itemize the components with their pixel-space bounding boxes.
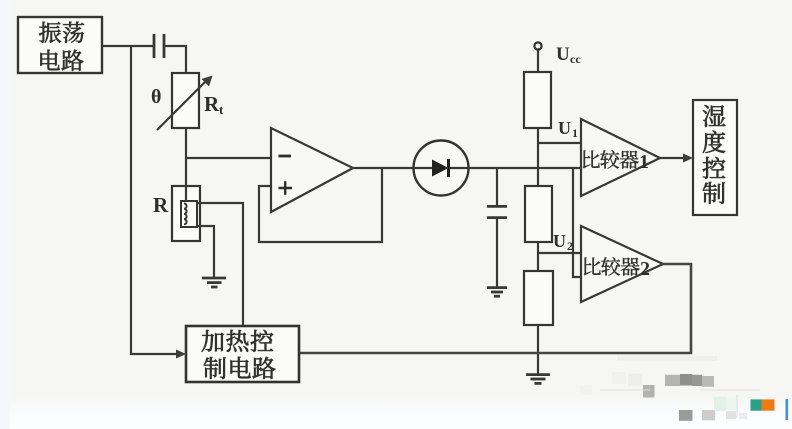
svg-text:U: U (558, 118, 571, 138)
wire: oscillator output (102, 45, 154, 47)
svg-text:2: 2 (640, 258, 650, 280)
wire: op-amp output (353, 167, 416, 169)
wire: sensor heater terminal to heater-control box (197, 203, 243, 326)
wire: sensor lower terminal to ground (197, 226, 214, 278)
wire: rail to filter capacitor (496, 168, 498, 205)
ground (divider) (526, 375, 550, 384)
supply terminal Ucc (534, 42, 581, 66)
svg-text:θ: θ (151, 86, 161, 108)
svg-text:1: 1 (572, 126, 578, 140)
resistor R2 (divider middle) (525, 186, 552, 242)
op-amp U1 (amplifier) (271, 128, 353, 212)
wire: Rt bottom to humidity sensor R (185, 128, 187, 186)
capacitor C2 (filter) (487, 206, 507, 217)
wire: R2 to R3 (537, 242, 539, 271)
humidity sensor inner element (181, 186, 197, 227)
node U1 / label (558, 118, 578, 140)
svg-text:R: R (204, 92, 220, 116)
capacitor C (coupling) (154, 34, 164, 58)
svg-text:1: 1 (639, 151, 649, 173)
wire: oscillator to heater-control input (with arrowhead) (131, 46, 186, 359)
wire: R1 to R2 (537, 128, 539, 186)
thermistor Rt (adjustable, with arrow) (157, 73, 213, 130)
svg-text:U: U (553, 231, 566, 251)
comparator 2 比较器2 (581, 226, 663, 302)
node U2 / label (553, 231, 573, 253)
wire: signal rail down to comparator 2 input (573, 168, 581, 277)
oscillator block 振荡电路 (18, 17, 102, 73)
wire: rectified signal rail (467, 167, 581, 169)
resistor R3 (divider bottom) (524, 271, 553, 325)
wire: comparator 2 output to heater control (299, 264, 691, 353)
svg-text:R: R (153, 193, 169, 217)
label Rt (204, 92, 224, 117)
wire: capacitor to Rt (164, 46, 186, 73)
wire: feedback from output to non-inverting input (259, 169, 382, 242)
svg-text:cc: cc (570, 52, 581, 66)
wire: node U1 to comparator 1 (538, 142, 581, 144)
humidity sensor R (outer box) (172, 186, 200, 241)
wire: divider node to op-amp inverting input (186, 157, 271, 159)
heater control block 加热控制电路 (186, 326, 299, 382)
wire: Ucc to R1 (537, 50, 539, 72)
decorative watermark (not labelled further) (580, 356, 788, 421)
wire: comparator 1 output to humidity control (arrowhead) (660, 154, 693, 163)
comparator 1 比较器1 (581, 119, 660, 196)
ground (filter capacitor) (487, 288, 507, 297)
resistor R1 (divider top) (524, 72, 551, 128)
rectifier diode D (in circle) (414, 141, 470, 196)
wire: node U2 to comparator 2 (538, 252, 581, 254)
svg-text:t: t (219, 102, 224, 117)
svg-text:U: U (556, 44, 570, 65)
wire: capacitor to ground (496, 218, 498, 287)
humidity control block 湿度控制 (693, 100, 737, 215)
wire: R3 to ground (537, 325, 539, 374)
node: junction at oscillator output (130, 46, 132, 47)
ground (sensor) (202, 278, 226, 287)
